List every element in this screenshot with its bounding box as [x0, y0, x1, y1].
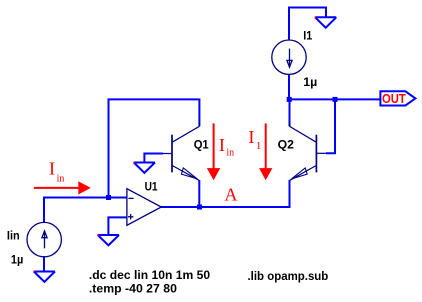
wire I1 bottom to top rail	[288, 74, 290, 99]
svg-text:.dc dec lin 10n 1m 50: .dc dec lin 10n 1m 50	[89, 268, 211, 282]
ground at op-amp plus input	[98, 235, 119, 245]
wire Q2 collector	[289, 99, 291, 126]
svg-text:Q1: Q1	[194, 138, 209, 152]
red current arrow I_1 (vertical, at Q2)	[259, 123, 272, 180]
svg-text:OUT: OUT	[382, 92, 406, 106]
svg-text:I: I	[49, 159, 55, 179]
junction Q2 base / top rail	[333, 97, 338, 102]
red current arrow I_in (vertical, at node A left)	[207, 123, 220, 180]
wire node A horizontal to Q2 emitter	[199, 180, 289, 207]
wire Iin bottom to ground	[43, 257, 45, 272]
ground near Q1 base	[134, 163, 155, 173]
wire Iin top to op-amp minus input	[44, 198, 127, 223]
wire feedback loop left vertical (minus input to top rail)	[109, 99, 200, 197]
ground near I1 (top right)	[315, 17, 336, 27]
svg-text:Iin: Iin	[7, 228, 20, 242]
svg-text:1µ: 1µ	[11, 252, 23, 266]
wire top rail to OUT	[289, 98, 381, 100]
red current arrow Iin (horizontal)	[34, 181, 91, 194]
svg-text:.temp -40 27 80: .temp -40 27 80	[89, 281, 177, 295]
OUT port flag	[380, 91, 415, 105]
junction I1 / Q2 collector	[287, 97, 292, 102]
svg-text:in: in	[226, 147, 234, 159]
junction at op-amp minus input	[106, 195, 111, 200]
wire op-amp plus input to ground	[108, 217, 127, 235]
current source Iin	[27, 222, 61, 256]
svg-text:1µ: 1µ	[303, 75, 317, 89]
svg-text:I: I	[248, 127, 254, 147]
current source I1	[272, 40, 306, 74]
junction node A	[197, 205, 202, 210]
transistor Q1	[163, 122, 199, 181]
svg-text:in: in	[57, 172, 65, 184]
svg-text:.lib opamp.sub: .lib opamp.sub	[248, 269, 329, 283]
wire op-amp output to node A junction	[161, 206, 199, 208]
svg-text:I1: I1	[303, 29, 312, 43]
svg-text:I: I	[219, 135, 225, 155]
transistor Q2	[290, 122, 327, 181]
op-amp U1	[127, 189, 161, 226]
svg-text:A: A	[224, 185, 237, 205]
svg-text:1: 1	[256, 140, 262, 152]
svg-text:U1: U1	[145, 179, 158, 193]
svg-text:Q2: Q2	[278, 137, 295, 151]
wire Q1 base to ground	[144, 154, 163, 163]
wire Q2 base to top rail	[326, 99, 335, 153]
wire I1 top to ground	[289, 8, 326, 41]
ground below Iin	[34, 272, 55, 282]
wire Q1 emitter down to node A	[198, 180, 200, 207]
